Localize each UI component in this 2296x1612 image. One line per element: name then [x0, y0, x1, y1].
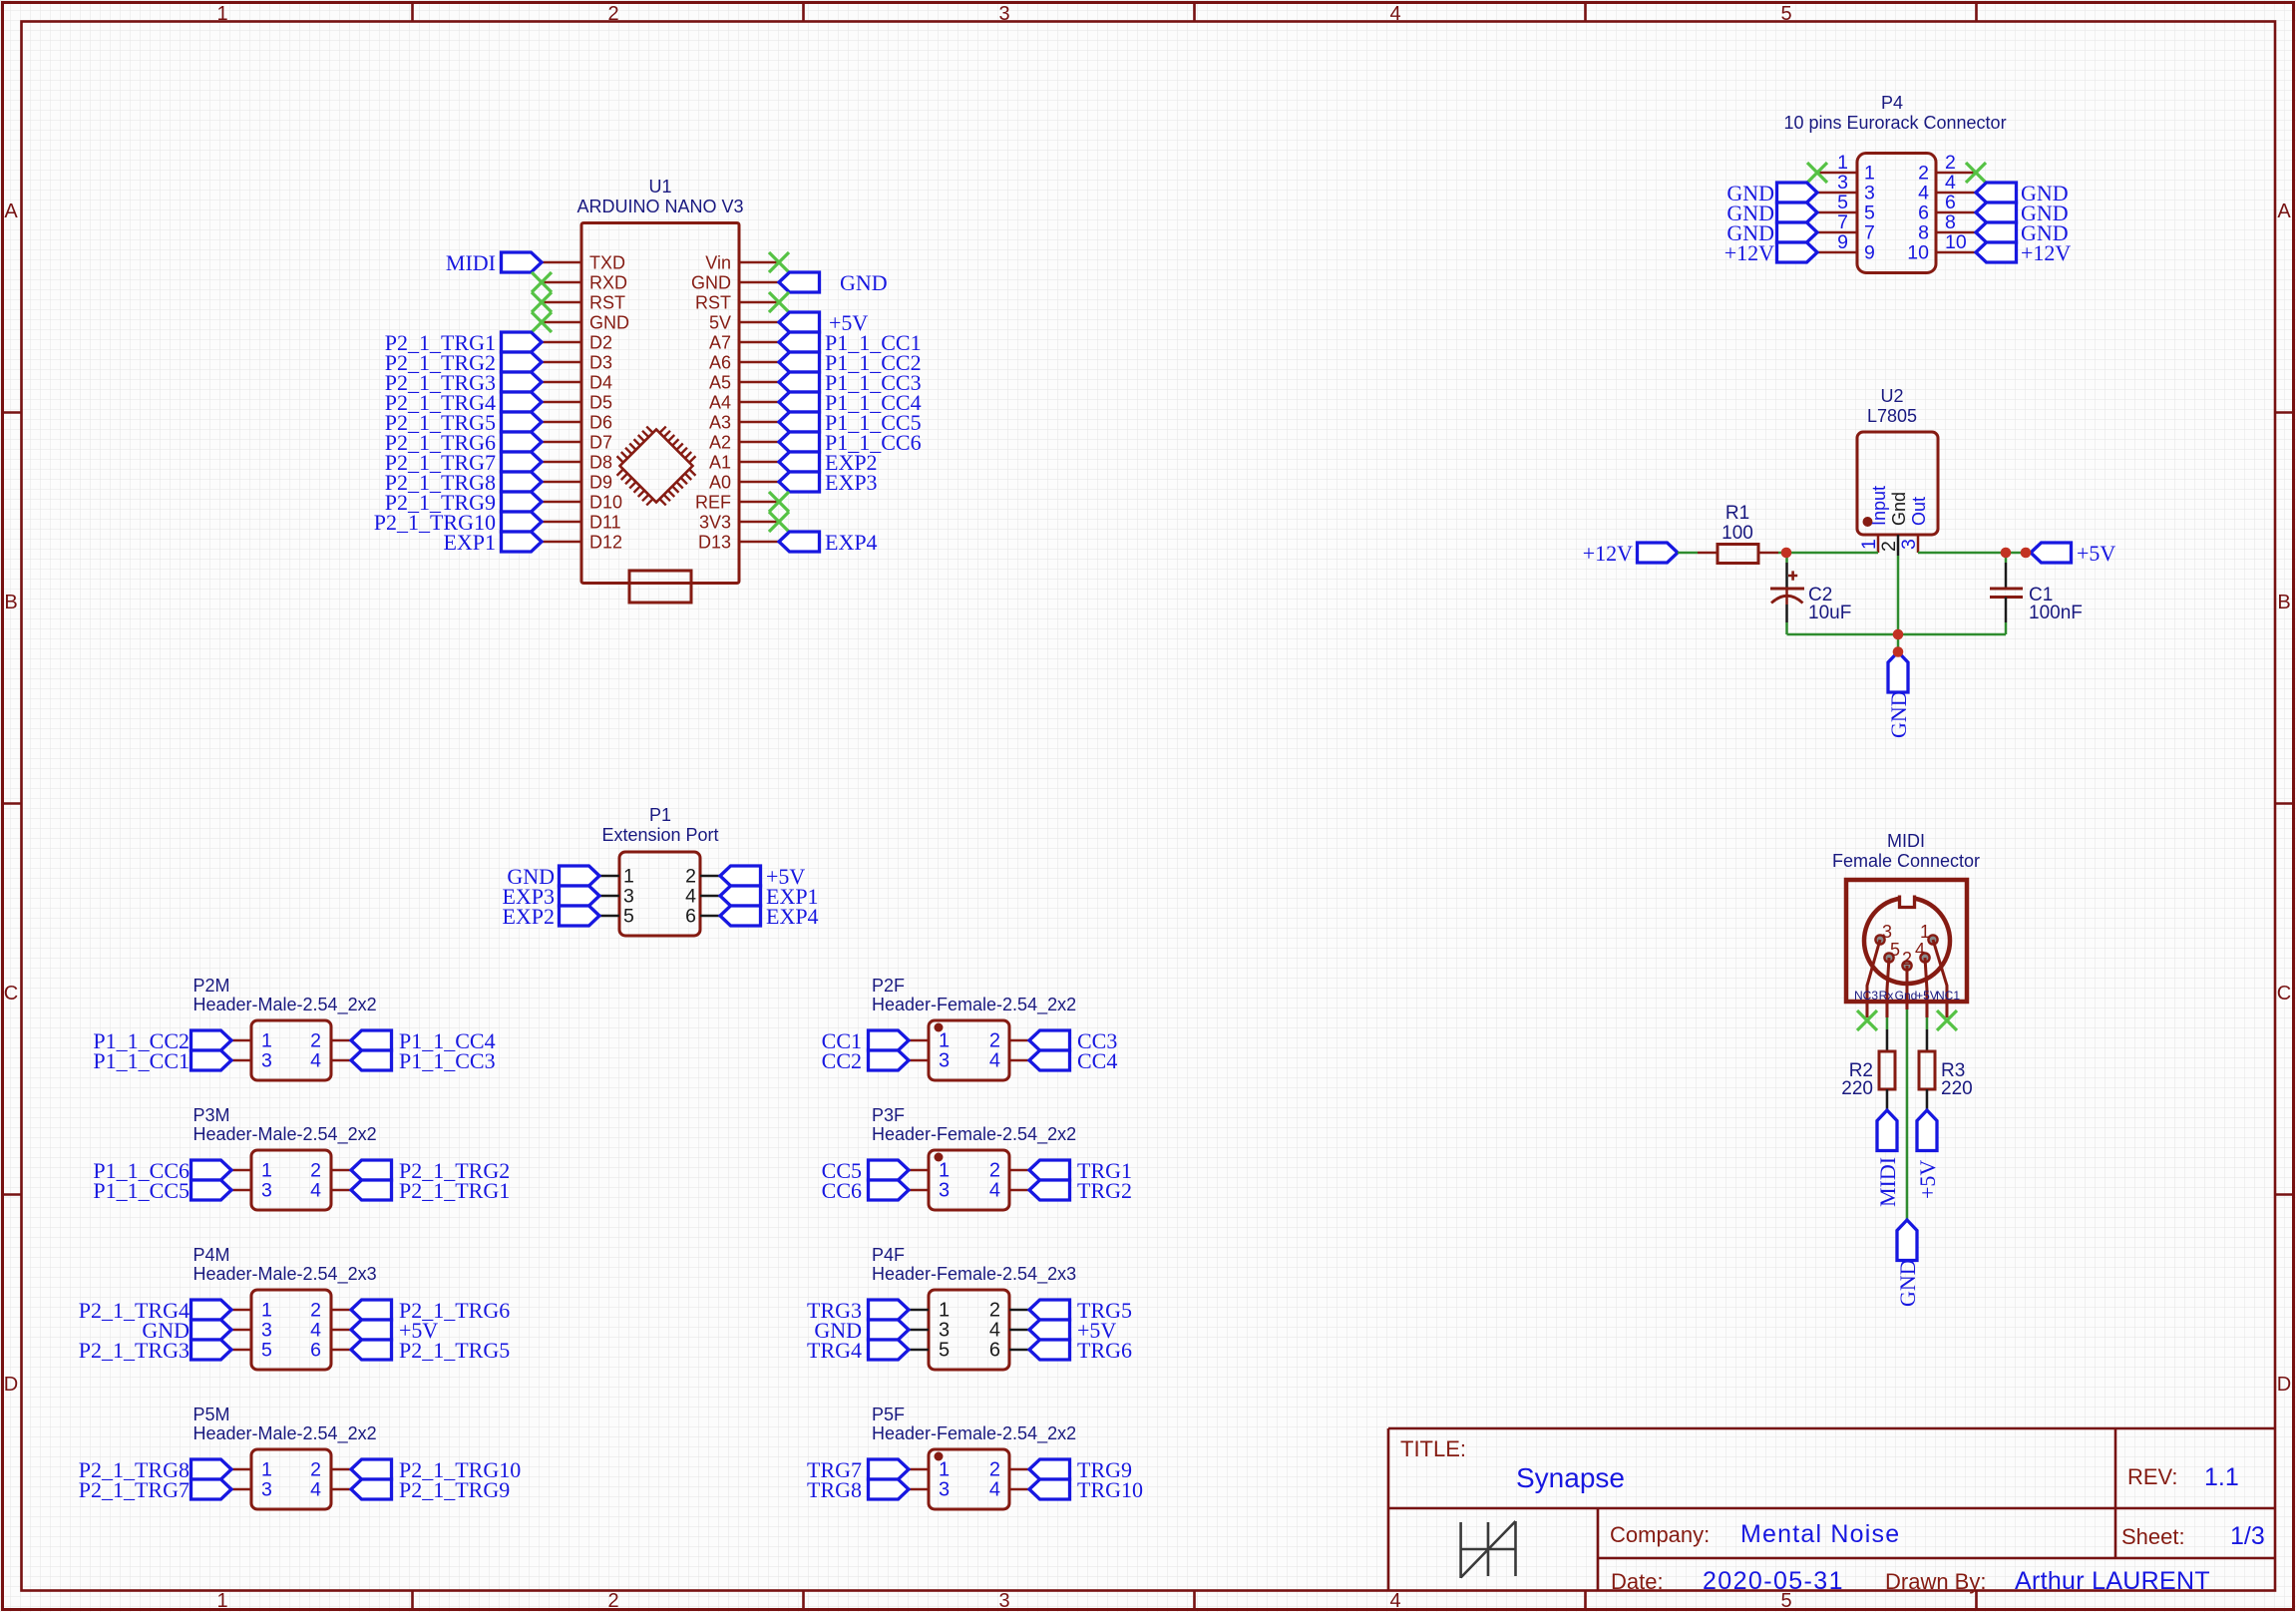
P4M left pins	[231, 1300, 272, 1362]
svg-text:D: D	[4, 1374, 18, 1396]
svg-text:Header-Male-2.54_2x2: Header-Male-2.54_2x2	[193, 1124, 377, 1145]
net port P2_1_TRG3 at P4M left	[191, 1340, 232, 1360]
svg-text:100nF: 100nF	[2029, 603, 2083, 623]
connector P1 Extension Port	[619, 852, 700, 936]
net port P1_1_CC1 at P2M left	[191, 1050, 232, 1070]
svg-text:Rx: Rx	[1879, 989, 1894, 1003]
svg-text:4: 4	[989, 1180, 1000, 1202]
svg-text:3: 3	[939, 1479, 950, 1501]
svg-text:2: 2	[310, 1459, 321, 1481]
svg-text:3: 3	[939, 1320, 950, 1342]
svg-text:5: 5	[623, 906, 634, 928]
svg-text:Header-Female-2.54_2x2: Header-Female-2.54_2x2	[872, 1423, 1076, 1444]
net port P1_1_CC3 at P2M right	[351, 1050, 392, 1070]
svg-text:P4F: P4F	[872, 1245, 905, 1265]
no-connect U1 Vin	[769, 252, 789, 272]
svg-text:Mental Noise: Mental Noise	[1740, 1520, 1900, 1548]
svg-text:P2_1_TRG7: P2_1_TRG7	[79, 1477, 190, 1502]
svg-text:1: 1	[261, 1459, 272, 1481]
power port GND at P4 right	[1976, 222, 2017, 242]
svg-text:4: 4	[310, 1479, 321, 1501]
svg-text:TRG8: TRG8	[807, 1477, 862, 1502]
net port EXP2 at P1 left	[560, 906, 600, 926]
svg-text:D12: D12	[589, 533, 622, 553]
net port GND at P4M left	[191, 1320, 232, 1340]
MIDI DIN circle	[1864, 898, 1950, 984]
svg-text:P2_1_TRG3: P2_1_TRG3	[79, 1338, 190, 1363]
P4F left pins	[909, 1300, 950, 1362]
wire +5V col to R3	[1926, 1002, 1929, 1017]
svg-text:10: 10	[1945, 231, 1967, 253]
P3M left pins	[231, 1160, 272, 1202]
net port P2_1_TRG9	[502, 492, 543, 512]
svg-text:A: A	[2277, 201, 2291, 222]
svg-text:Header-Female-2.54_2x3: Header-Female-2.54_2x3	[872, 1264, 1076, 1285]
U1 left pins TXD..D12	[542, 253, 629, 553]
svg-text:TRG4: TRG4	[807, 1338, 862, 1363]
connector P3M Header-Male	[251, 1150, 331, 1210]
connector P4M Header-Male	[251, 1290, 331, 1370]
svg-text:P5M: P5M	[193, 1405, 230, 1424]
svg-text:TRG10: TRG10	[1077, 1477, 1143, 1502]
power port GND at P4 left	[1777, 183, 1818, 202]
svg-text:P2_1_TRG1: P2_1_TRG1	[399, 1178, 510, 1203]
no-connect U1 RXD	[532, 272, 552, 292]
connector P5M Header-Male	[251, 1449, 331, 1509]
net port EXP3 at P1 left	[560, 886, 600, 906]
junction at C2 branch	[1781, 548, 1792, 559]
P2F left pins	[909, 1030, 950, 1072]
svg-text:RST: RST	[589, 293, 625, 313]
P1 left pins 1,3,5	[599, 866, 634, 928]
svg-text:1: 1	[261, 1030, 272, 1052]
svg-text:A7: A7	[709, 333, 731, 353]
svg-text:REF: REF	[695, 493, 731, 513]
net port TRG8 at P5F left	[869, 1479, 910, 1499]
svg-text:CC2: CC2	[822, 1048, 862, 1073]
svg-text:4: 4	[685, 886, 696, 908]
net port TRG7 at P5F left	[869, 1459, 910, 1479]
svg-text:EXP2: EXP2	[502, 904, 555, 929]
svg-text:B: B	[2277, 592, 2290, 613]
svg-text:4: 4	[1918, 183, 1929, 204]
P1 right pins 2,4,6	[685, 866, 720, 928]
svg-text:3: 3	[939, 1180, 950, 1202]
svg-text:A: A	[4, 201, 18, 222]
svg-text:6: 6	[989, 1340, 1000, 1362]
svg-text:C: C	[4, 983, 18, 1005]
svg-text:Gnd: Gnd	[1895, 989, 1918, 1003]
net port CC3 at P2F right	[1029, 1030, 1070, 1050]
svg-text:9: 9	[1837, 231, 1848, 253]
wire U2 Out to +5V	[1918, 552, 2031, 555]
net port +5V at P4M right	[351, 1320, 392, 1340]
svg-text:1: 1	[939, 1160, 950, 1182]
svg-text:3: 3	[1898, 539, 1920, 550]
net port P1_1_CC4	[779, 392, 820, 412]
svg-text:2: 2	[685, 866, 696, 888]
net port P1_1_CC6	[779, 432, 820, 452]
svg-text:2: 2	[989, 1300, 1000, 1322]
svg-text:P2M: P2M	[193, 976, 230, 996]
net port EXP1 at P1 right	[720, 886, 761, 906]
svg-text:4: 4	[989, 1479, 1000, 1501]
svg-text:D4: D4	[589, 373, 612, 393]
svg-text:1: 1	[939, 1030, 950, 1052]
svg-text:2: 2	[1878, 541, 1900, 552]
svg-text:7: 7	[1864, 222, 1875, 244]
wire ground rail	[1787, 633, 2007, 636]
svg-text:4: 4	[310, 1180, 321, 1202]
svg-text:3: 3	[261, 1479, 272, 1501]
svg-text:Synapse: Synapse	[1516, 1462, 1625, 1493]
net port P1_1_CC2	[779, 352, 820, 372]
svg-text:1: 1	[1858, 539, 1880, 550]
wire U2 Gnd down	[1897, 556, 1900, 652]
svg-text:2: 2	[607, 1590, 618, 1612]
svg-text:EXP3: EXP3	[825, 470, 878, 495]
MIDI pin numbers 3 1 5 4 2	[1882, 922, 1930, 969]
P4 left pins 1,3,5,7,9	[1817, 152, 1875, 264]
svg-text:NC3: NC3	[1854, 989, 1878, 1003]
svg-text:4: 4	[989, 1320, 1000, 1342]
svg-text:EXP1: EXP1	[443, 530, 496, 555]
P2M left pins	[231, 1030, 272, 1072]
P3M right pins	[310, 1160, 351, 1202]
svg-text:GND: GND	[1886, 690, 1911, 738]
svg-text:1/3: 1/3	[2230, 1522, 2265, 1550]
net port P2_1_TRG6 at P4M right	[351, 1300, 392, 1320]
no-connect P4 pin2	[1966, 163, 1986, 183]
svg-text:6: 6	[310, 1340, 321, 1362]
svg-text:4: 4	[310, 1320, 321, 1342]
net port EXP4	[779, 532, 820, 552]
svg-text:3: 3	[261, 1180, 272, 1202]
svg-text:P3F: P3F	[872, 1105, 905, 1125]
svg-text:A3: A3	[709, 413, 731, 433]
svg-text:Header-Female-2.54_2x2: Header-Female-2.54_2x2	[872, 1124, 1076, 1145]
net port P2_1_TRG4 at P4M left	[191, 1300, 232, 1320]
net port EXP3	[779, 472, 820, 492]
resistor R2	[1879, 1051, 1895, 1089]
connector P2F Header-Female	[929, 1020, 1009, 1080]
svg-text:2: 2	[989, 1459, 1000, 1481]
svg-text:Header-Male-2.54_2x2: Header-Male-2.54_2x2	[193, 1423, 377, 1444]
power port +12V at P4 right	[1976, 242, 2017, 262]
net port CC2 at P2F left	[869, 1050, 910, 1070]
net port CC1 at P2F left	[869, 1030, 910, 1050]
svg-text:L7805: L7805	[1867, 406, 1917, 426]
svg-text:Female Connector: Female Connector	[1832, 851, 1980, 871]
net port P2_1_TRG7 at P5M left	[191, 1479, 232, 1499]
svg-text:5: 5	[939, 1340, 950, 1362]
svg-text:P1_1_CC3: P1_1_CC3	[399, 1048, 496, 1073]
svg-text:B: B	[4, 592, 17, 613]
svg-text:6: 6	[1945, 192, 1956, 213]
junction Gnd rail	[1893, 629, 1904, 640]
P5F right pins	[989, 1459, 1029, 1501]
wire R2 to MIDI flag	[1886, 1089, 1889, 1110]
voltage regulator U2 L7805	[1857, 432, 1938, 535]
no-connect P4 pin1	[1807, 163, 1827, 183]
svg-text:5: 5	[1890, 940, 1900, 960]
net port P2_1_TRG7	[502, 452, 543, 472]
no-connect U1 RST	[532, 292, 552, 312]
svg-text:1: 1	[261, 1160, 272, 1182]
P5M left pins	[231, 1459, 272, 1501]
svg-text:+12V: +12V	[1724, 240, 1774, 265]
svg-text:Sheet:: Sheet:	[2121, 1524, 2185, 1549]
net port P2_1_TRG8	[502, 472, 543, 492]
svg-text:2: 2	[1918, 163, 1929, 185]
op-amp U1 ARDUINO NANO V3 symbol body	[581, 223, 739, 584]
svg-text:A0: A0	[709, 473, 731, 493]
wire R3 to +5V flag	[1926, 1089, 1929, 1110]
net port TRG3 at P4F left	[869, 1300, 910, 1320]
net port P2_1_TRG3	[502, 372, 543, 392]
capacitor C2 10uF electrolytic	[1785, 553, 1788, 563]
svg-text:TXD: TXD	[589, 253, 625, 273]
svg-text:100: 100	[1722, 523, 1753, 544]
svg-text:3: 3	[623, 886, 634, 908]
U1 USB connector box	[629, 571, 691, 603]
svg-text:TRG6: TRG6	[1077, 1338, 1132, 1363]
resistor R3	[1919, 1051, 1935, 1089]
svg-text:P2F: P2F	[872, 976, 905, 996]
svg-text:Header-Male-2.54_2x2: Header-Male-2.54_2x2	[193, 995, 377, 1015]
svg-text:4: 4	[310, 1050, 321, 1072]
svg-text:A1: A1	[709, 453, 731, 473]
net port CC6 at P3F left	[869, 1180, 910, 1200]
svg-text:A4: A4	[709, 393, 731, 413]
MIDI NC3 stub	[1866, 1002, 1869, 1017]
svg-text:1: 1	[261, 1300, 272, 1322]
svg-text:+5V: +5V	[2077, 541, 2115, 566]
net port TRG10 at P5F right	[1029, 1479, 1070, 1499]
svg-text:GND: GND	[840, 270, 888, 295]
svg-text:1: 1	[1837, 152, 1848, 174]
svg-text:P4: P4	[1881, 93, 1903, 113]
net port P2_1_TRG1 at P3M right	[351, 1180, 392, 1200]
svg-text:2: 2	[310, 1160, 321, 1182]
no-connect NC1	[1937, 1010, 1957, 1030]
power port GND at P4 right	[1976, 183, 2017, 202]
net port EXP2	[779, 452, 820, 472]
net port TRG2 at P3F right	[1029, 1180, 1070, 1200]
svg-text:U2: U2	[1880, 386, 1903, 406]
wire +12V to R1	[1678, 552, 1698, 555]
net port P1_1_CC3	[779, 372, 820, 392]
svg-text:3: 3	[261, 1320, 272, 1342]
junction at GND flag	[1893, 646, 1904, 657]
no-connect U1 GND	[532, 312, 552, 332]
svg-text:P2_1_TRG9: P2_1_TRG9	[399, 1477, 510, 1502]
svg-text:REV:: REV:	[2127, 1464, 2178, 1489]
net port MIDI (vertical)	[1877, 1110, 1897, 1151]
resistor R1	[1698, 552, 1718, 555]
svg-text:+5V: +5V	[1915, 1160, 1940, 1199]
svg-text:2: 2	[310, 1300, 321, 1322]
svg-text:GND: GND	[691, 273, 731, 293]
svg-text:4: 4	[1945, 172, 1956, 194]
net port TRG9 at P5F right	[1029, 1459, 1070, 1479]
svg-text:D9: D9	[589, 473, 612, 493]
net port P1_1_CC5	[779, 412, 820, 432]
svg-text:3: 3	[261, 1050, 272, 1072]
no-connect U1 REF	[769, 492, 789, 512]
svg-text:3V3: 3V3	[699, 513, 731, 533]
net port P1_1_CC2 at P2M left	[191, 1030, 232, 1050]
svg-text:MIDI: MIDI	[1875, 1157, 1900, 1207]
svg-text:Arthur LAURENT: Arthur LAURENT	[2015, 1567, 2210, 1595]
connector P4F Header-Female	[929, 1290, 1009, 1370]
svg-text:7: 7	[1837, 211, 1848, 233]
MIDI pin dots	[1875, 935, 1937, 970]
net port CC5 at P3F left	[869, 1160, 910, 1180]
U1 MCU chip glyph	[607, 417, 705, 515]
svg-text:1.1: 1.1	[2204, 1463, 2239, 1491]
svg-text:1: 1	[216, 1590, 227, 1612]
net port P2_1_TRG5	[502, 412, 543, 432]
svg-text:Company:: Company:	[1610, 1522, 1710, 1547]
svg-text:Gnd: Gnd	[1889, 492, 1909, 526]
svg-text:9: 9	[1864, 242, 1875, 264]
net port P2_1_TRG2	[502, 352, 543, 372]
svg-text:RST: RST	[695, 293, 731, 313]
svg-text:P1: P1	[649, 805, 671, 825]
net port P1_1_CC5 at P3M left	[191, 1180, 232, 1200]
MIDI pad labels NC3 Rx Gnd +5V NC1	[1854, 989, 1960, 1003]
P4F right pins	[989, 1300, 1029, 1362]
svg-text:1: 1	[939, 1459, 950, 1481]
svg-text:10uF: 10uF	[1808, 603, 1851, 623]
net port P2_1_TRG9 at P5M right	[351, 1479, 392, 1499]
svg-text:2020-05-31: 2020-05-31	[1703, 1567, 1844, 1595]
svg-text:1: 1	[1920, 922, 1930, 942]
wire Rx to R2	[1886, 1002, 1889, 1017]
svg-text:5: 5	[1780, 3, 1791, 25]
svg-text:D10: D10	[589, 493, 622, 513]
net port P2_1_TRG5 at P4M right	[351, 1340, 392, 1360]
connector P2M Header-Male	[251, 1020, 331, 1080]
net port P2_1_TRG1	[502, 332, 543, 352]
junction at +5V flag	[2021, 548, 2032, 559]
svg-text:5V: 5V	[709, 313, 731, 333]
power port GND at U1	[779, 272, 820, 292]
power port +5V right of U2	[2031, 543, 2072, 563]
connector P3F Header-Female	[929, 1150, 1009, 1210]
svg-text:4: 4	[1389, 3, 1400, 25]
P2F right pins	[989, 1030, 1029, 1072]
svg-text:D5: D5	[589, 393, 612, 413]
power port GND at P4 right	[1976, 202, 2017, 222]
wire R1 to U2 pin1	[1778, 552, 1878, 555]
net port +5V at P1 right	[720, 866, 761, 886]
svg-text:+12V: +12V	[1583, 541, 1633, 566]
svg-text:U1: U1	[648, 177, 671, 197]
svg-text:1: 1	[216, 3, 227, 25]
power port GND below U2	[1888, 652, 1908, 693]
net port EXP4 at P1 right	[720, 906, 761, 926]
capacitor C1 100nF	[2005, 553, 2008, 563]
svg-text:1: 1	[623, 866, 634, 888]
no-connect NC3	[1857, 1010, 1877, 1030]
svg-text:R1: R1	[1725, 503, 1749, 524]
svg-text:D6: D6	[589, 413, 612, 433]
svg-text:2: 2	[989, 1030, 1000, 1052]
svg-text:1: 1	[939, 1300, 950, 1322]
P5M right pins	[310, 1459, 351, 1501]
svg-text:Header-Male-2.54_2x3: Header-Male-2.54_2x3	[193, 1264, 377, 1285]
net port P2_1_TRG10 at P5M right	[351, 1459, 392, 1479]
svg-text:CC4: CC4	[1077, 1048, 1117, 1073]
svg-text:3: 3	[998, 1590, 1009, 1612]
svg-text:220: 220	[1841, 1078, 1873, 1099]
svg-text:Extension Port: Extension Port	[601, 825, 718, 845]
svg-text:D3: D3	[589, 353, 612, 373]
P4 right pins 2,4,6,8,10	[1907, 152, 1976, 264]
svg-text:EXP4: EXP4	[825, 530, 878, 555]
wire MIDI Gnd down	[1906, 1002, 1909, 1009]
svg-text:5: 5	[1837, 192, 1848, 213]
svg-text:6: 6	[1918, 202, 1929, 224]
svg-text:CC6: CC6	[822, 1178, 862, 1203]
net port TRG5 at P4F right	[1029, 1300, 1070, 1320]
svg-text:2: 2	[310, 1030, 321, 1052]
net port TRG1 at P3F right	[1029, 1160, 1070, 1180]
svg-text:2: 2	[989, 1160, 1000, 1182]
MIDI NC1 stub	[1946, 1002, 1949, 1017]
svg-text:3: 3	[1837, 172, 1848, 194]
net port TRG4 at P4F left	[869, 1340, 910, 1360]
net port EXP1	[502, 532, 543, 552]
svg-text:A5: A5	[709, 373, 731, 393]
power port GND at P4 left	[1777, 202, 1818, 222]
svg-text:8: 8	[1918, 222, 1929, 244]
svg-text:8: 8	[1945, 211, 1956, 233]
company logo	[1461, 1521, 1516, 1578]
no-connect U1 RST right	[769, 292, 789, 312]
svg-text:5: 5	[1864, 202, 1875, 224]
power port +5V at U1	[779, 312, 820, 332]
svg-text:P2_1_TRG5: P2_1_TRG5	[399, 1338, 510, 1363]
svg-text:Input: Input	[1869, 486, 1889, 526]
svg-text:220: 220	[1941, 1078, 1973, 1099]
net port P2_1_TRG2 at P3M right	[351, 1160, 392, 1180]
net port TRG6 at P4F right	[1029, 1340, 1070, 1360]
U1 right pins Vin..D13	[691, 253, 779, 553]
P3F right pins	[989, 1160, 1029, 1202]
svg-text:5: 5	[261, 1340, 272, 1362]
net port P1_1_CC6 at P3M left	[191, 1160, 232, 1180]
connector P4 10 pins Eurorack	[1857, 154, 1936, 273]
svg-text:D2: D2	[589, 333, 612, 353]
svg-text:P1_1_CC1: P1_1_CC1	[93, 1048, 190, 1073]
svg-text:A6: A6	[709, 353, 731, 373]
svg-text:P4M: P4M	[193, 1245, 230, 1265]
svg-text:MIDI: MIDI	[1887, 831, 1925, 851]
junction at C1 branch	[2001, 548, 2012, 559]
net port P1_1_CC4 at P2M right	[351, 1030, 392, 1050]
power port +12V at P4 left	[1777, 242, 1818, 262]
svg-text:D7: D7	[589, 433, 612, 453]
net port MIDI	[502, 252, 543, 272]
power port GND at P4 left	[1777, 222, 1818, 242]
svg-text:Out: Out	[1909, 497, 1929, 526]
svg-text:10 pins Eurorack Connector: 10 pins Eurorack Connector	[1783, 113, 2006, 133]
svg-text:4: 4	[1389, 1590, 1400, 1612]
svg-text:10: 10	[1907, 242, 1929, 264]
